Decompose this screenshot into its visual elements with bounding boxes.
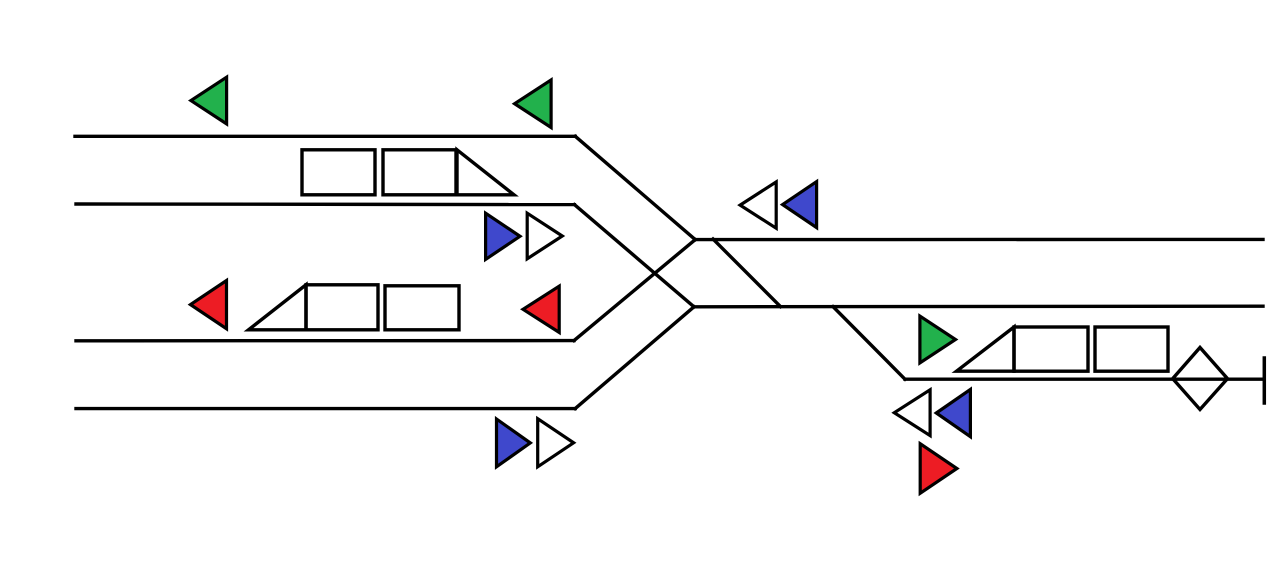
- signal white right bottom-left pair: [538, 419, 574, 467]
- train B car 1: [306, 285, 378, 330]
- signal blue left siding pair: [936, 389, 970, 436]
- signal red right below siding: [920, 444, 957, 494]
- train A car 2: [383, 150, 456, 195]
- signal green left top-left: [191, 77, 227, 124]
- siding horizontal track: [905, 378, 1262, 381]
- train A car 1: [302, 150, 375, 195]
- signal red left middle-right: [523, 286, 559, 332]
- train A nose: [457, 150, 514, 195]
- signal white left junction pair: [740, 182, 776, 228]
- train C car 2: [1095, 327, 1168, 371]
- track 2 second-left horizontal: [76, 202, 574, 206]
- train C nose: [957, 327, 1015, 371]
- signal blue right upper pair: [486, 213, 520, 259]
- siding turnout diagonal: [833, 307, 905, 380]
- signal blue left junction pair: [783, 182, 817, 228]
- track 2 diagonal down to lower junction: [574, 205, 694, 307]
- signal red left middle-left: [191, 281, 227, 329]
- track 1 top-left horizontal: [75, 135, 575, 138]
- signal blue right bottom-left pair: [497, 419, 531, 467]
- track 3 diagonal ascending to upper junction: [574, 240, 695, 341]
- signal green right siding: [920, 316, 956, 363]
- train B nose: [249, 285, 307, 330]
- train B car 2: [385, 286, 459, 330]
- crossover upper-right to lower-right: [713, 239, 781, 307]
- diamond marker: [1173, 348, 1228, 410]
- upper-right main track: [695, 238, 1263, 242]
- signal green left top-center: [515, 80, 552, 128]
- buffer stop: [1263, 358, 1267, 403]
- track 4 bottom-left horizontal: [76, 407, 575, 410]
- track 4 diagonal ascending to lower junction: [575, 307, 694, 409]
- signal white left siding pair: [894, 390, 930, 436]
- track 1 diagonal down to upper junction: [575, 136, 695, 239]
- track 3 middle-left horizontal: [76, 339, 574, 343]
- train C car 1: [1014, 327, 1088, 371]
- lower-right main track: [694, 305, 1263, 309]
- signal white right upper pair: [527, 213, 562, 259]
